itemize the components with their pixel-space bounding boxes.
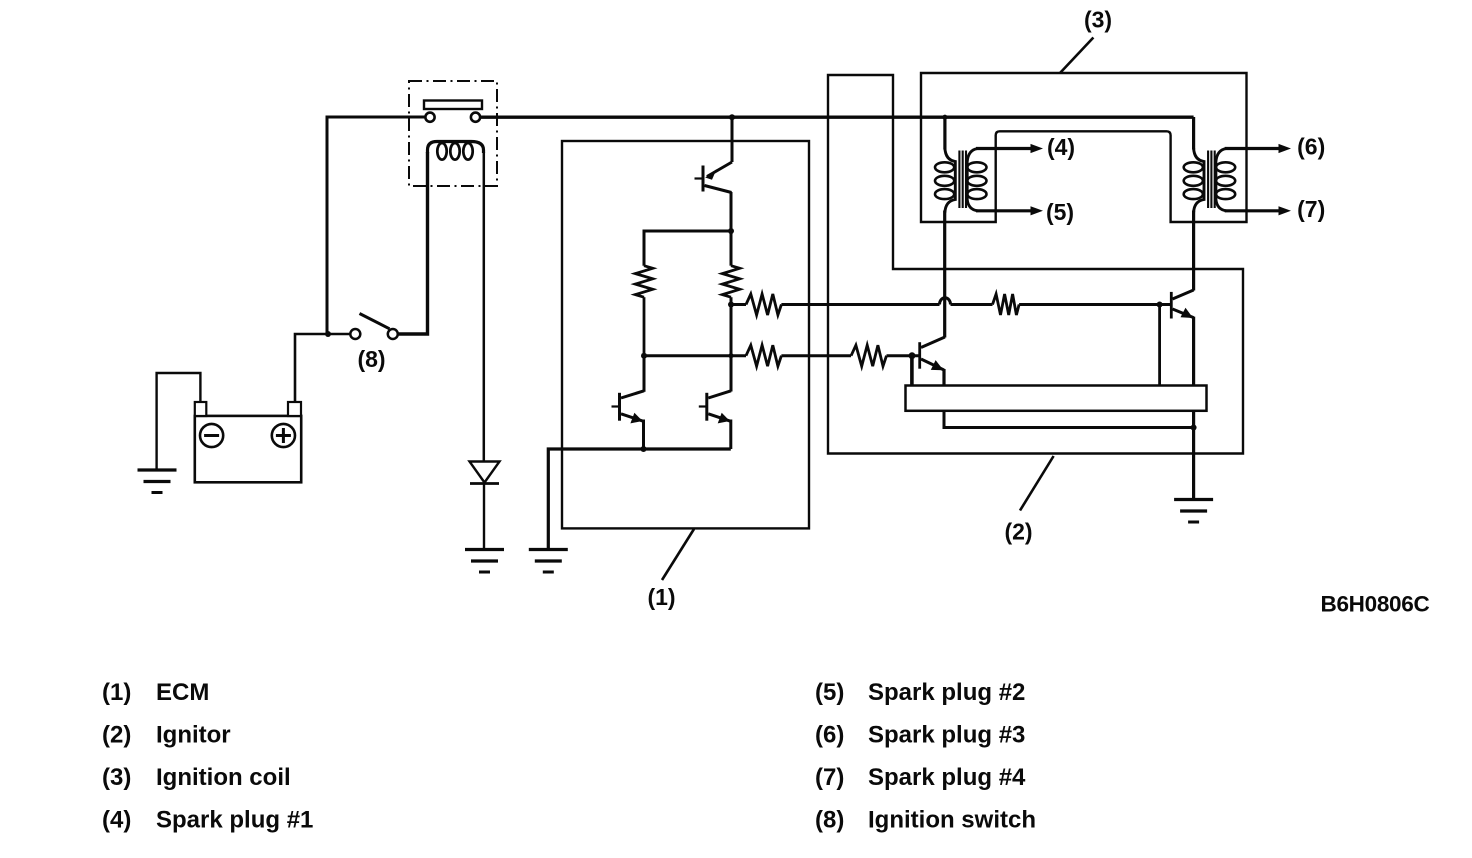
svg-text:Ignition switch: Ignition switch	[868, 807, 1036, 834]
svg-text:(5): (5)	[1046, 199, 1074, 225]
svg-text:Spark plug #3: Spark plug #3	[868, 722, 1025, 749]
wire spark plug 3 arrow	[1225, 144, 1291, 153]
svg-text:(2): (2)	[102, 722, 131, 749]
node junction dot R2 bottom output node	[728, 302, 734, 308]
wire Q5 base shunt to bar	[1158, 305, 1161, 386]
svg-text:(4): (4)	[102, 807, 131, 834]
relay contact terminal right	[471, 113, 480, 122]
wire upper output line inside ECM	[731, 303, 746, 306]
resistor R4 horizontal lower in ECM	[746, 345, 781, 366]
wire upper output to ignitor	[781, 303, 939, 306]
ground battery ground	[138, 470, 177, 493]
transistor Q3 NPN in ECM right	[699, 391, 731, 449]
wire main supply rail right segment to coil T2	[480, 115, 1194, 118]
wire R5 to Q4 base	[887, 354, 920, 357]
wire collector node to left branch	[644, 231, 731, 266]
node junction dot switch feed	[325, 331, 331, 337]
wire R1 bottom to lower rail	[643, 297, 646, 356]
transformer T2 ignition coil 2	[1184, 117, 1235, 213]
svg-text:(3): (3)	[102, 764, 131, 791]
wire hop to resistor R6	[951, 303, 993, 306]
switch ignition switch (8)	[350, 314, 398, 340]
svg-text:(1): (1)	[647, 584, 675, 610]
leader line for (3)	[1060, 38, 1093, 74]
node junction dot Q4 base shunt	[909, 352, 916, 359]
wire relay coil right leg down to diode	[483, 152, 486, 462]
svg-text:(6): (6)	[815, 722, 844, 749]
resistor R3 horizontal upper in ECM	[746, 294, 781, 315]
ground diode ground	[465, 550, 504, 573]
svg-text:(7): (7)	[815, 764, 844, 791]
node junction dot ECM feed	[729, 114, 735, 120]
node junction dot Q1 collector node	[728, 228, 734, 234]
wire hop over collector wire	[940, 298, 951, 305]
node junction dot lower rail right	[728, 353, 733, 358]
ignitor box (2) outline with chimney	[828, 75, 1243, 454]
node junction dot under-bar right	[1191, 425, 1197, 431]
wire spark plug 2 arrow	[976, 206, 1043, 215]
wire relay coil left leg down to switch	[398, 152, 428, 334]
wire lower rail inside ECM	[644, 354, 746, 357]
wire main supply rail left segment	[327, 117, 426, 334]
leader line for (2)	[1020, 456, 1054, 511]
svg-text:(7): (7)	[1297, 196, 1325, 222]
transistor Q2 NPN in ECM left	[612, 356, 645, 449]
svg-text:(3): (3)	[1084, 7, 1112, 33]
wire Q4 collector to T1 primary	[943, 211, 946, 338]
wire R6 to Q5 base	[1019, 303, 1170, 306]
relay main relay dash-dot enclosure	[409, 81, 497, 186]
svg-text:(8): (8)	[357, 346, 385, 372]
svg-text:(8): (8)	[815, 807, 844, 834]
wire battery negative to ground	[157, 373, 201, 470]
svg-text:(6): (6)	[1297, 134, 1325, 160]
ECM box (1)	[562, 141, 809, 528]
svg-text:Spark plug #4: Spark plug #4	[868, 764, 1026, 791]
svg-text:(2): (2)	[1004, 519, 1032, 545]
relay contact bar	[424, 101, 482, 110]
battery	[195, 402, 301, 482]
svg-text:ECM: ECM	[156, 679, 209, 706]
relay contact terminal left	[425, 113, 434, 122]
wire Q4 base shunt to bar	[910, 356, 914, 386]
svg-text:(5): (5)	[815, 679, 844, 706]
svg-text:Ignitor: Ignitor	[156, 722, 231, 749]
resistor R5 ignitor left base resistor	[851, 345, 886, 366]
resistor R6 ignitor right base resistor	[993, 294, 1020, 315]
wire vertical R2 bottom down to lower rail and Q3 collector	[730, 305, 733, 392]
svg-text:B6H0806C: B6H0806C	[1321, 592, 1430, 617]
node junction dot Q5 base shunt	[1157, 302, 1163, 308]
emitter bus bar rectangle in ignitor	[906, 386, 1207, 411]
transformer T1 ignition coil 1	[935, 117, 987, 213]
resistor R1 vertical left in ECM	[635, 266, 652, 298]
wire spark plug 1 arrow	[976, 144, 1043, 153]
wire spark plug 4 arrow	[1225, 206, 1291, 215]
transistor Q4 NPN ignitor left	[920, 337, 945, 386]
resistor R2 vertical right in ECM	[722, 231, 739, 305]
svg-text:(1): (1)	[102, 679, 131, 706]
transistor Q5 NPN ignitor right	[1171, 290, 1193, 386]
svg-text:Spark plug #2: Spark plug #2	[868, 679, 1025, 706]
svg-text:Spark plug #1: Spark plug #1	[156, 807, 313, 834]
ignition coil box (3)	[921, 73, 1247, 222]
node junction dot T1 primary feed	[942, 115, 947, 120]
wire under-bar left drop	[944, 411, 1194, 428]
transistor Q1 PNP in ECM	[695, 117, 733, 231]
svg-text:(4): (4)	[1047, 134, 1075, 160]
ground ECM ground	[529, 550, 568, 573]
diode relay suppression diode	[470, 462, 500, 550]
wire switch to battery positive	[295, 334, 350, 402]
relay coil winding	[428, 142, 484, 160]
wire Q5 collector to T2 primary	[1192, 211, 1195, 291]
svg-text:Ignition coil: Ignition coil	[156, 764, 291, 791]
wire bar right drop to ground	[1192, 411, 1195, 500]
ground ignitor ground	[1174, 500, 1213, 523]
leader line for (1)	[662, 529, 694, 580]
wire lower output to ignitor	[781, 354, 851, 357]
wire emitter ground rail	[548, 449, 731, 550]
node junction dot emitter rail	[641, 446, 647, 452]
node junction dot lower rail left	[641, 353, 647, 359]
